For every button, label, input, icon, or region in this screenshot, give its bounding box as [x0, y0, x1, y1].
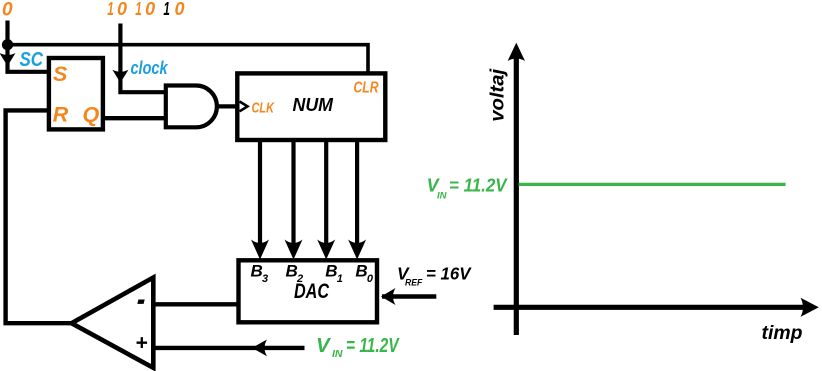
CLK wedge pin — [240, 102, 248, 112]
wire clock input to AND gate — [120, 24, 167, 93]
label DAC — [294, 279, 329, 303]
label VREF = 16V — [397, 264, 472, 288]
svg-text:0: 0 — [175, 0, 185, 19]
svg-text:B: B — [325, 261, 337, 280]
node 0 label — [2, 0, 13, 21]
junction dot — [2, 39, 13, 50]
DAC U4 — [239, 260, 378, 322]
svg-text:1: 1 — [107, 0, 114, 19]
wire AND output to CLK — [217, 104, 239, 108]
svg-text:DAC: DAC — [294, 279, 329, 303]
pin label CLR — [354, 80, 379, 97]
wire Q output to AND gate — [103, 116, 166, 120]
svg-text:NUM: NUM — [293, 94, 334, 115]
svg-text:+: + — [135, 331, 147, 354]
axis label timp — [762, 322, 803, 344]
svg-text:B: B — [251, 261, 263, 280]
svg-text:B: B — [355, 261, 367, 280]
wire SC input to S of flip-flop — [8, 45, 50, 72]
label VIN = 11.2V (circuit, green) — [316, 334, 400, 360]
axis label voltaj — [487, 68, 509, 122]
svg-text:REF: REF — [405, 277, 423, 287]
wire B1 — [317, 140, 335, 260]
svg-text:= 16V: = 16V — [426, 264, 472, 284]
svg-text:0: 0 — [117, 0, 127, 19]
pin label B1 — [325, 261, 343, 284]
svg-text:0: 0 — [2, 0, 13, 21]
svg-text:timp: timp — [762, 322, 803, 344]
arrowhead SC (down) — [0, 53, 16, 66]
pin label CLK — [252, 100, 275, 117]
green VIN level line — [519, 183, 786, 186]
wire B0 — [348, 140, 366, 260]
svg-text:clock: clock — [131, 57, 169, 78]
svg-text:Q: Q — [83, 102, 100, 126]
pin label Q — [83, 102, 100, 126]
svg-text:voltaj: voltaj — [487, 68, 509, 122]
wire DAC to comparator minus — [156, 302, 238, 306]
feedback wire comparator output to R — [6, 110, 72, 323]
arrowhead clock (down) — [112, 70, 128, 83]
plus sign — [135, 331, 147, 354]
svg-text:R: R — [53, 102, 69, 126]
svg-text:0: 0 — [145, 0, 155, 19]
pin label B2 — [286, 261, 304, 284]
graph y-axis voltaj — [508, 43, 525, 335]
comparator U5 — [72, 278, 154, 368]
label VIN = 11.2V (graph, green) — [427, 175, 509, 201]
label SC — [20, 48, 44, 71]
AND gate U2 — [166, 86, 217, 128]
pin label B0 — [355, 261, 374, 284]
svg-text:CLR: CLR — [354, 80, 379, 97]
svg-text:1: 1 — [135, 0, 142, 19]
label NUM — [293, 94, 334, 115]
VREF input wire with arrow — [381, 288, 436, 305]
svg-text:CLK: CLK — [252, 100, 275, 117]
wire VIN to comparator plus with arrow — [156, 340, 305, 357]
counter NUM U3 — [237, 73, 385, 140]
svg-text:IN: IN — [332, 348, 343, 360]
svg-text:= 11.2V: = 11.2V — [449, 175, 508, 195]
pin label B3 — [251, 261, 269, 284]
svg-text:1: 1 — [163, 0, 170, 19]
svg-text:= 11.2V: = 11.2V — [346, 334, 400, 357]
flip-flop U1 (SR latch) — [49, 58, 103, 129]
svg-text:B: B — [286, 261, 298, 280]
svg-text:IN: IN — [437, 191, 448, 202]
svg-text:3: 3 — [262, 273, 268, 285]
pin label S — [53, 62, 68, 86]
svg-text:S: S — [53, 62, 68, 86]
svg-text:0: 0 — [367, 273, 374, 285]
wire from node 0 down to junction — [5, 21, 9, 45]
wire B3 — [251, 140, 269, 260]
wire B2 — [285, 140, 303, 260]
pin label R — [53, 102, 69, 126]
binary sequence label 1 0 1 0 1 0 — [107, 0, 184, 19]
minus sign — [137, 300, 144, 304]
svg-text:SC: SC — [20, 48, 44, 71]
svg-text:V: V — [316, 334, 332, 357]
wire CLR feedback (junction to NUM CLR) — [8, 45, 369, 72]
graph x-axis timp — [494, 298, 819, 317]
label clock — [131, 57, 169, 78]
svg-text:1: 1 — [337, 273, 343, 285]
